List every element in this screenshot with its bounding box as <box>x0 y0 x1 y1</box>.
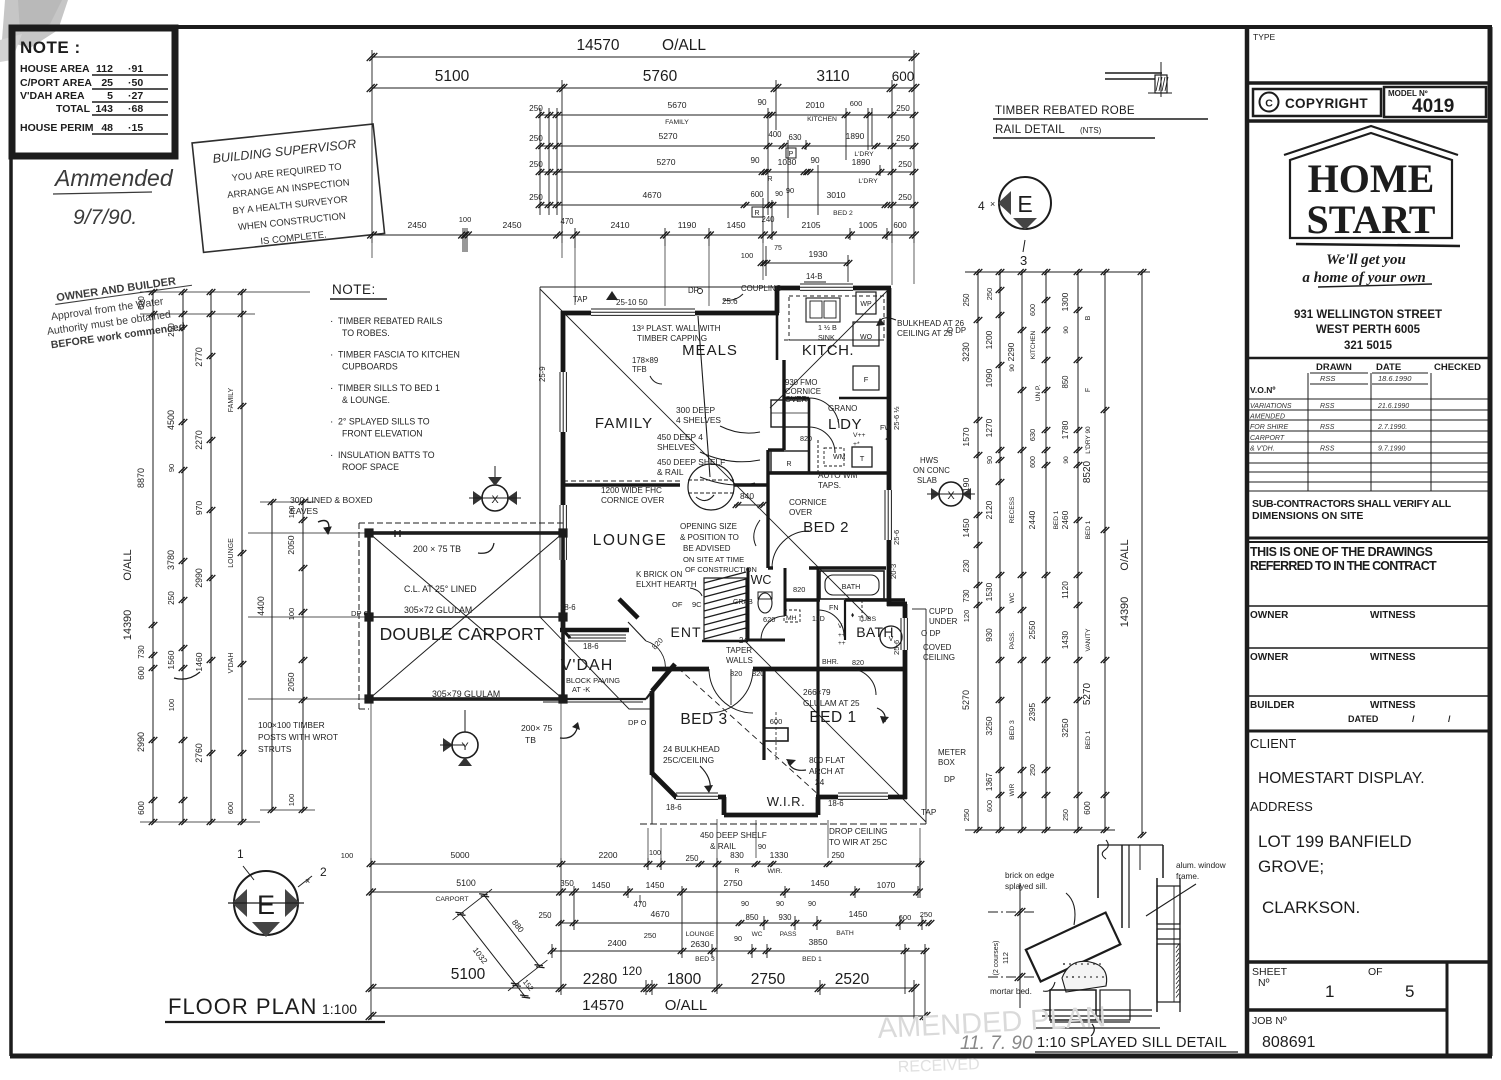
svg-text:1 ½ B: 1 ½ B <box>818 323 837 332</box>
svg-text:1560: 1560 <box>166 650 176 669</box>
svg-text:1450: 1450 <box>646 880 665 890</box>
svg-text:& LOUNGE.: & LOUNGE. <box>342 395 390 405</box>
svg-text:230: 230 <box>962 559 971 573</box>
svg-text:24 BULKHEAD: 24 BULKHEAD <box>663 744 720 754</box>
svg-text:24: 24 <box>739 636 748 645</box>
svg-text:COUPLING: COUPLING <box>741 284 782 293</box>
svg-text:2550: 2550 <box>1027 620 1037 639</box>
svg-text:1460: 1460 <box>194 652 204 671</box>
svg-text:820: 820 <box>793 585 805 594</box>
svg-text:O/ALL: O/ALL <box>665 997 708 1014</box>
svg-text:DRAWN: DRAWN <box>1316 362 1352 373</box>
svg-text:3010: 3010 <box>826 190 845 200</box>
svg-text:alum. window: alum. window <box>1176 861 1226 870</box>
svg-text:1367: 1367 <box>985 772 994 791</box>
svg-text:1530: 1530 <box>984 582 994 601</box>
svg-text:1200: 1200 <box>984 330 994 349</box>
svg-text:930: 930 <box>778 913 792 922</box>
svg-text:V'DAH AREA: V'DAH AREA <box>20 90 85 102</box>
svg-text:INSULATION BATTS TO: INSULATION BATTS TO <box>338 450 435 460</box>
svg-text:Ammended: Ammended <box>53 165 174 191</box>
svg-text:FLOOR PLAN: FLOOR PLAN <box>168 994 317 1019</box>
svg-text:L'DY: L'DY <box>828 416 862 433</box>
svg-text:3: 3 <box>1020 253 1027 268</box>
svg-text:W.I.R.: W.I.R. <box>767 794 805 809</box>
svg-text:++: ++ <box>838 632 846 639</box>
svg-text:100×100 TIMBER: 100×100 TIMBER <box>258 720 325 730</box>
svg-text:1890: 1890 <box>852 157 871 167</box>
svg-text:120: 120 <box>622 964 642 978</box>
svg-text:120: 120 <box>962 610 971 623</box>
svg-text:1450: 1450 <box>592 880 611 890</box>
svg-text:×: × <box>305 876 310 886</box>
svg-text:90: 90 <box>775 191 783 198</box>
svg-text:1:10 SPLAYED SILL DETAIL: 1:10 SPLAYED SILL DETAIL <box>1037 1035 1227 1051</box>
svg-text:820: 820 <box>752 669 764 678</box>
svg-text:E: E <box>1017 191 1032 217</box>
svg-text:100: 100 <box>167 699 176 712</box>
svg-text:X: X <box>947 490 955 502</box>
svg-text:8520: 8520 <box>1082 460 1093 483</box>
svg-text:25.6: 25.6 <box>722 297 738 306</box>
svg-text:18.6.1990: 18.6.1990 <box>1378 374 1412 383</box>
svg-text:FW: FW <box>880 423 891 432</box>
svg-text:KITCHEN: KITCHEN <box>1030 330 1037 359</box>
svg-text:F: F <box>1085 388 1092 392</box>
svg-text:4 SHELVES: 4 SHELVES <box>676 415 721 425</box>
svg-text:COPYRIGHT: COPYRIGHT <box>1285 96 1368 111</box>
svg-text:CLIENT: CLIENT <box>1250 736 1296 751</box>
svg-text:DP: DP <box>944 775 955 784</box>
svg-text:4670: 4670 <box>642 190 661 200</box>
svg-text:2760: 2760 <box>194 743 204 763</box>
svg-text:VANITY: VANITY <box>1085 628 1092 652</box>
svg-text:DIMENSIONS ON SITE: DIMENSIONS ON SITE <box>1252 510 1363 522</box>
svg-text:2410: 2410 <box>610 220 629 230</box>
svg-text:2290: 2290 <box>1006 342 1016 361</box>
svg-text:600: 600 <box>892 69 915 84</box>
svg-text:14570: 14570 <box>576 37 619 54</box>
svg-text:250: 250 <box>896 134 910 143</box>
svg-text:OWNER: OWNER <box>1250 610 1289 621</box>
svg-text:BED 1: BED 1 <box>809 709 856 726</box>
svg-text:5100: 5100 <box>456 878 476 888</box>
svg-text:L'DRY 90: L'DRY 90 <box>1085 426 1092 454</box>
svg-text:WITNESS: WITNESS <box>1370 610 1416 621</box>
svg-text:3850: 3850 <box>808 937 827 947</box>
svg-text:1120: 1120 <box>1061 581 1070 599</box>
svg-text:CORNICE: CORNICE <box>789 498 827 507</box>
svg-text:frame.: frame. <box>1176 872 1199 881</box>
svg-text:WIR: WIR <box>1009 783 1016 796</box>
svg-text:9.7.1990: 9.7.1990 <box>1378 445 1405 452</box>
svg-text:LOUNGE: LOUNGE <box>228 538 235 568</box>
svg-text:250: 250 <box>898 160 912 169</box>
svg-text:TAPER: TAPER <box>726 646 752 655</box>
svg-text:100: 100 <box>649 848 661 857</box>
svg-text:600: 600 <box>1028 304 1037 316</box>
svg-text:BATH: BATH <box>836 930 854 937</box>
svg-text:850: 850 <box>745 913 759 922</box>
svg-text:K BRICK ON: K BRICK ON <box>636 570 682 579</box>
svg-text:SINK: SINK <box>818 333 835 342</box>
svg-text:OVER: OVER <box>789 508 812 517</box>
svg-text:GROVE;: GROVE; <box>1258 857 1324 876</box>
svg-text:SLAB: SLAB <box>917 476 937 485</box>
svg-text:250: 250 <box>962 809 971 822</box>
svg-text:2200: 2200 <box>598 850 617 860</box>
svg-text:RSS: RSS <box>1320 374 1335 383</box>
svg-text:18-6: 18-6 <box>583 642 599 651</box>
svg-text:X: X <box>491 494 499 506</box>
svg-text:5100: 5100 <box>435 68 470 85</box>
svg-text:250: 250 <box>538 911 552 920</box>
svg-text:REFERRED TO IN THE CONTRACT: REFERRED TO IN THE CONTRACT <box>1250 559 1437 573</box>
svg-text:DP O: DP O <box>351 609 370 618</box>
svg-text:HOUSE AREA: HOUSE AREA <box>20 63 90 75</box>
svg-text:WIR.: WIR. <box>767 868 782 875</box>
svg-text:AUTO WM: AUTO WM <box>818 471 858 480</box>
svg-text:250: 250 <box>644 931 657 940</box>
svg-text:1190: 1190 <box>678 220 697 230</box>
svg-text:POSTS WITH WROT: POSTS WITH WROT <box>258 732 338 742</box>
svg-text:2460: 2460 <box>1060 510 1070 529</box>
svg-text:14390: 14390 <box>1119 597 1131 628</box>
svg-text:2395: 2395 <box>1028 702 1037 721</box>
svg-text:2990: 2990 <box>194 568 204 588</box>
svg-text:GRAB: GRAB <box>733 599 753 606</box>
svg-text:O DP: O DP <box>921 629 941 638</box>
svg-text:TAPS.: TAPS. <box>818 481 841 490</box>
svg-text:COVED: COVED <box>923 643 952 652</box>
svg-text:FRONT ELEVATION: FRONT ELEVATION <box>342 429 423 439</box>
svg-text:250: 250 <box>167 323 176 337</box>
svg-text:112: 112 <box>96 63 113 75</box>
svg-text:B: B <box>1085 315 1092 320</box>
svg-text:3250: 3250 <box>1060 718 1070 737</box>
svg-text:600: 600 <box>1083 801 1092 815</box>
svg-text:600: 600 <box>750 190 764 199</box>
svg-text:TAP: TAP <box>921 808 937 817</box>
svg-text:WITNESS: WITNESS <box>1370 652 1416 663</box>
svg-text:BED 1: BED 1 <box>1053 510 1060 529</box>
svg-text:1300: 1300 <box>1060 292 1070 311</box>
svg-text:UN P.: UN P. <box>1035 385 1042 402</box>
svg-text:ROOF SPACE: ROOF SPACE <box>342 462 399 472</box>
svg-text:90: 90 <box>741 899 749 908</box>
svg-text:600: 600 <box>1030 456 1037 468</box>
svg-text:250: 250 <box>985 288 994 301</box>
svg-text:DROP CEILING: DROP CEILING <box>829 827 888 836</box>
svg-text:2050: 2050 <box>286 535 296 554</box>
svg-text:& RAIL: & RAIL <box>657 467 684 477</box>
svg-text:800 FLAT: 800 FLAT <box>809 755 845 765</box>
svg-text:25-6: 25-6 <box>892 640 901 655</box>
svg-text:2400: 2400 <box>607 938 626 948</box>
svg-text:305×72 GLULAM: 305×72 GLULAM <box>404 605 472 615</box>
svg-text:18-6: 18-6 <box>560 603 576 612</box>
svg-text:SUB-CONTRACTORS SHALL VERIFY A: SUB-CONTRACTORS SHALL VERIFY ALL <box>1252 498 1452 510</box>
svg-text:V'DAH: V'DAH <box>228 653 235 674</box>
svg-text:TB: TB <box>525 735 536 745</box>
svg-text:WALLS: WALLS <box>726 656 753 665</box>
svg-text:& V'DH.: & V'DH. <box>1250 445 1275 452</box>
svg-text:2450: 2450 <box>407 220 426 230</box>
svg-text:240: 240 <box>761 215 775 224</box>
svg-text:90: 90 <box>985 456 994 464</box>
svg-text:5270: 5270 <box>658 131 677 141</box>
svg-text:620: 620 <box>763 615 775 624</box>
svg-text:970: 970 <box>194 501 204 516</box>
svg-text:R: R <box>735 868 740 875</box>
svg-text:RAIL DETAIL: RAIL DETAIL <box>995 124 1065 136</box>
svg-text:HOME: HOME <box>1308 156 1435 201</box>
svg-text:820: 820 <box>730 669 742 678</box>
svg-text:90: 90 <box>1063 456 1070 464</box>
svg-text:FN: FN <box>829 603 839 612</box>
svg-text:75: 75 <box>774 245 782 252</box>
svg-text:ARCH AT: ARCH AT <box>809 766 845 776</box>
svg-text:1890: 1890 <box>846 131 865 141</box>
svg-text:CARPORT: CARPORT <box>1250 435 1285 442</box>
svg-text:TOTAL: TOTAL <box>56 103 91 115</box>
svg-text:OF CONSTRUCTION: OF CONSTRUCTION <box>685 565 757 574</box>
svg-text:splayed sill.: splayed sill. <box>1005 882 1047 891</box>
svg-text:TIMBER REBATED ROBE: TIMBER REBATED ROBE <box>995 105 1135 117</box>
svg-text:3780: 3780 <box>166 550 176 570</box>
svg-text:T: T <box>860 454 865 463</box>
svg-text:BE ADVISED: BE ADVISED <box>683 544 731 553</box>
svg-text:1930: 1930 <box>808 249 827 259</box>
svg-text:2270: 2270 <box>194 430 204 450</box>
svg-text:250: 250 <box>529 104 543 113</box>
svg-text:90: 90 <box>734 934 742 943</box>
svg-text:CUP'D: CUP'D <box>929 607 953 616</box>
svg-text:18-6: 18-6 <box>666 803 682 812</box>
svg-text:250: 250 <box>1063 809 1070 821</box>
svg-text:DP O: DP O <box>628 718 647 727</box>
svg-text:2630: 2630 <box>690 939 709 949</box>
svg-text:808691: 808691 <box>1262 1034 1315 1051</box>
svg-text:BUILDER: BUILDER <box>1250 700 1295 711</box>
svg-text:Nº: Nº <box>1258 977 1270 989</box>
svg-text:✦: ✦ <box>884 435 891 444</box>
svg-text:FAMILY: FAMILY <box>595 415 653 432</box>
svg-text:V'DAH: V'DAH <box>561 657 614 674</box>
svg-text:KITCH.: KITCH. <box>802 342 854 359</box>
svg-text:13³ PLAST. WALL WITH: 13³ PLAST. WALL WITH <box>632 324 721 333</box>
svg-text:1450: 1450 <box>726 220 745 230</box>
svg-text:100: 100 <box>287 608 296 621</box>
svg-text:300 DEEP: 300 DEEP <box>676 405 716 415</box>
svg-text:100: 100 <box>741 251 754 260</box>
svg-text:CEILING AT 25: CEILING AT 25 <box>897 329 953 338</box>
svg-text:PASS: PASS <box>780 931 798 938</box>
svg-text:1070: 1070 <box>877 880 896 890</box>
svg-text:90: 90 <box>808 899 816 908</box>
svg-text:1450: 1450 <box>961 518 971 537</box>
svg-text:THIS IS ONE OF THE DRAWINGS: THIS IS ONE OF THE DRAWINGS <box>1250 545 1433 559</box>
svg-text:630: 630 <box>1028 429 1037 442</box>
svg-text:E: E <box>257 890 275 920</box>
svg-text:250: 250 <box>962 293 971 307</box>
svg-text:TIMBER REBATED RAILS: TIMBER REBATED RAILS <box>338 316 443 326</box>
svg-text:DATED: DATED <box>1348 714 1379 724</box>
svg-text:2050: 2050 <box>286 672 296 691</box>
svg-text:NOTE :: NOTE : <box>20 38 81 57</box>
svg-text:305×79 GLULAM: 305×79 GLULAM <box>432 689 500 699</box>
svg-text:+*: +* <box>853 441 860 448</box>
svg-text:90: 90 <box>757 98 767 107</box>
svg-text:5: 5 <box>107 90 113 102</box>
svg-text:600: 600 <box>899 913 912 922</box>
svg-text:FAMILY: FAMILY <box>665 119 689 126</box>
svg-text:WITNESS: WITNESS <box>1370 700 1416 711</box>
svg-text:840: 840 <box>740 491 754 501</box>
svg-text:630: 630 <box>788 133 802 142</box>
svg-text:90: 90 <box>750 156 760 165</box>
svg-text:600: 600 <box>137 666 146 680</box>
svg-text:OVER: OVER <box>785 395 807 404</box>
svg-text:(2 courses): (2 courses) <box>993 940 1000 975</box>
svg-text:200× 75: 200× 75 <box>521 723 553 733</box>
svg-text:RSS: RSS <box>1320 403 1335 410</box>
svg-text:AT -K: AT -K <box>572 685 590 694</box>
svg-text:TYPE: TYPE <box>1253 32 1276 42</box>
svg-text:400: 400 <box>768 130 782 139</box>
svg-text:2.7.1990.: 2.7.1990. <box>1377 424 1407 431</box>
svg-text:WC: WC <box>1009 592 1016 603</box>
svg-text:470: 470 <box>560 217 574 226</box>
svg-text:BED 1: BED 1 <box>1085 520 1092 539</box>
svg-text:OF: OF <box>1368 966 1383 978</box>
svg-text:1090: 1090 <box>984 368 994 387</box>
svg-text:BATH: BATH <box>856 624 894 640</box>
svg-text:730: 730 <box>137 645 146 659</box>
svg-text:OF: OF <box>672 600 683 609</box>
svg-text:300 LINED & BOXED: 300 LINED & BOXED <box>290 495 373 505</box>
svg-text:250: 250 <box>1030 764 1037 776</box>
svg-text:250: 250 <box>831 851 845 860</box>
svg-text:R: R <box>754 210 759 217</box>
svg-text:SHELVES: SHELVES <box>657 442 695 452</box>
svg-text:×: × <box>990 199 995 209</box>
svg-text:PASS.: PASS. <box>1009 630 1016 649</box>
svg-text:V++: V++ <box>853 432 866 439</box>
svg-text:·27: ·27 <box>128 90 143 102</box>
svg-text:L'DRY: L'DRY <box>858 178 878 185</box>
svg-text:& RAIL: & RAIL <box>710 842 736 851</box>
svg-text:25: 25 <box>101 77 113 89</box>
svg-text:178×89: 178×89 <box>632 356 658 365</box>
svg-text:OWNER: OWNER <box>1250 652 1289 663</box>
svg-text:GRANO: GRANO <box>828 404 857 413</box>
svg-text:·: · <box>330 450 333 461</box>
svg-text:GLULAM AT 25: GLULAM AT 25 <box>803 699 860 708</box>
svg-text:WC: WC <box>752 931 763 938</box>
svg-text:5100: 5100 <box>451 966 486 983</box>
svg-text:2750: 2750 <box>751 971 786 988</box>
svg-text:90: 90 <box>167 464 176 472</box>
svg-text:HOMESTART DISPLAY.: HOMESTART DISPLAY. <box>1258 770 1425 787</box>
svg-text:TIMBER SILLS TO BED 1: TIMBER SILLS TO BED 1 <box>338 383 440 393</box>
svg-text:TIMBER CAPPING: TIMBER CAPPING <box>637 334 707 343</box>
svg-text:90: 90 <box>776 899 784 908</box>
svg-text:1:100: 1:100 <box>322 1001 357 1017</box>
svg-text:48: 48 <box>101 122 113 134</box>
svg-text:ADDRESS: ADDRESS <box>1250 799 1313 814</box>
svg-text:100: 100 <box>459 215 472 224</box>
svg-text:CHECKED: CHECKED <box>1434 362 1481 373</box>
svg-text:OPENING SIZE: OPENING SIZE <box>680 522 737 531</box>
svg-text:1450: 1450 <box>849 909 868 919</box>
svg-text:14390: 14390 <box>122 610 134 641</box>
svg-text:4500: 4500 <box>166 410 176 430</box>
svg-text:R: R <box>786 461 791 468</box>
svg-text:DATE: DATE <box>1376 362 1401 373</box>
svg-text:·91: ·91 <box>128 63 143 75</box>
svg-text:TFB: TFB <box>632 365 647 374</box>
svg-text:2: 2 <box>320 865 327 879</box>
svg-text:1330: 1330 <box>770 850 789 860</box>
svg-text:2450: 2450 <box>502 220 521 230</box>
svg-text:250: 250 <box>529 193 543 202</box>
svg-text:WEST PERTH 6005: WEST PERTH 6005 <box>1316 324 1421 336</box>
svg-text:TIMBER FASCIA TO KITCHEN: TIMBER FASCIA TO KITCHEN <box>338 350 460 360</box>
svg-text:NOTE:: NOTE: <box>332 282 376 297</box>
svg-text:450 DEEP SHELF: 450 DEEP SHELF <box>657 457 725 467</box>
svg-text:820: 820 <box>852 658 864 667</box>
svg-text:9C: 9C <box>692 600 702 609</box>
svg-text:2440: 2440 <box>1027 510 1037 529</box>
svg-text:BLOCK PAVING: BLOCK PAVING <box>566 676 620 685</box>
svg-text:·: · <box>330 316 333 327</box>
svg-text:TO ROBES.: TO ROBES. <box>342 328 390 338</box>
svg-text:RSS: RSS <box>1320 424 1335 431</box>
svg-text:2120: 2120 <box>984 500 994 519</box>
svg-text:++: ++ <box>838 640 846 647</box>
svg-text:CEILING: CEILING <box>923 653 955 662</box>
svg-text:90: 90 <box>1009 364 1016 372</box>
svg-text:4400: 4400 <box>256 596 266 616</box>
svg-text:·68: ·68 <box>128 103 143 115</box>
svg-text:(NTS): (NTS) <box>1080 126 1102 135</box>
svg-text:250: 250 <box>685 854 699 863</box>
svg-text:TO WIR AT 25C: TO WIR AT 25C <box>829 838 887 847</box>
svg-text:MH: MH <box>786 615 797 622</box>
svg-text:600: 600 <box>893 221 907 230</box>
svg-text:O/ALL: O/ALL <box>662 37 706 54</box>
svg-text:1270: 1270 <box>984 418 994 437</box>
svg-text:CORNICE OVER: CORNICE OVER <box>601 496 664 505</box>
svg-text:brick on edge: brick on edge <box>1005 871 1055 880</box>
svg-text:24: 24 <box>815 777 825 787</box>
svg-text:UNDER: UNDER <box>929 617 958 626</box>
svg-text:& POSITION TO: & POSITION TO <box>680 533 739 542</box>
svg-text:RSS: RSS <box>1320 445 1335 452</box>
svg-text:90: 90 <box>1063 326 1070 334</box>
svg-text:BED 2: BED 2 <box>803 519 849 536</box>
svg-text:600: 600 <box>226 802 235 815</box>
svg-text:BED 3: BED 3 <box>680 711 727 728</box>
svg-text:LOUNGE: LOUNGE <box>686 931 715 938</box>
svg-text:CARPORT: CARPORT <box>435 896 468 903</box>
svg-text:5270: 5270 <box>1082 682 1093 705</box>
svg-text:930: 930 <box>985 628 994 642</box>
svg-text:HWS: HWS <box>920 456 938 465</box>
svg-text:3250: 3250 <box>984 716 994 735</box>
svg-text:730: 730 <box>962 589 971 603</box>
